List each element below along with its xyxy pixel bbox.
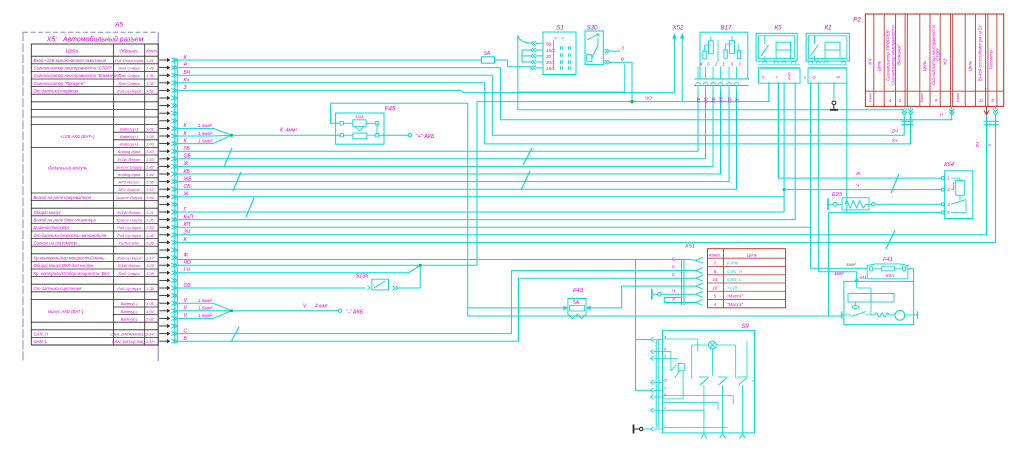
- wire S1 pin50 drop: [518, 35, 531, 92]
- wire V 4mm: [232, 310, 339, 312]
- svg-text:минус АКБ (ВАТ-): минус АКБ (ВАТ-): [48, 309, 84, 314]
- junction dot S30/bus: [630, 100, 633, 103]
- svg-text:4мм²: 4мм²: [846, 262, 856, 267]
- svg-text:Ж: Ж: [855, 171, 861, 177]
- svg-text:КчП: КчП: [787, 72, 792, 79]
- arrow P2 pin11 red: [986, 106, 988, 115]
- wire row21 G: [177, 211, 784, 213]
- merge chevron V: [213, 303, 232, 318]
- arrow P2 pin9: [949, 109, 954, 113]
- svg-text:1.5мм²: 1.5мм²: [198, 131, 213, 136]
- svg-text:Pull-Up Input: Pull-Up Input: [117, 233, 141, 238]
- svg-text:Сигнализатор неисправности “Вн: Сигнализатор неисправности “Внимание”: [34, 73, 121, 78]
- wire row34 V: [177, 310, 213, 312]
- svg-text:Pull-Up Input: Pull-Up Input: [117, 286, 141, 291]
- wire row24 ZCh: [177, 116, 986, 235]
- svg-text:+12В: +12В: [727, 285, 737, 290]
- wire S30 out 0: [610, 62, 632, 101]
- svg-text:Кр- контроль/Отбор мощности- В: Кр- контроль/Отбор мощности- Вкл: [34, 271, 110, 276]
- bundle slash D: [523, 148, 532, 165]
- svg-text:Р2: Р2: [853, 17, 861, 24]
- pin triangle M1: [855, 278, 859, 281]
- bundle slash B: [233, 172, 241, 191]
- svg-text:ЗБ: ЗБ: [734, 97, 739, 103]
- wire row38 CAN_L: [177, 278, 696, 341]
- svg-text:15/1: 15/1: [546, 66, 555, 71]
- svg-text:“-” АКБ: “-” АКБ: [346, 310, 364, 316]
- svg-text:Source Output: Source Output: [116, 218, 143, 223]
- svg-text:4 мм²: 4 мм²: [315, 304, 328, 310]
- wire row25 K: [177, 116, 995, 243]
- svg-text:Е23: Е23: [832, 192, 843, 198]
- svg-text:1.10: 1.10: [146, 225, 155, 230]
- wire row23 KP: [177, 226, 810, 228]
- svg-text:2: 2: [946, 187, 950, 192]
- svg-text:Цепь: Цепь: [747, 253, 757, 258]
- wire row29 GCh: [177, 272, 409, 274]
- wire K1 pin1 down: [811, 82, 868, 268]
- bus riser to K5: [682, 82, 769, 101]
- svg-text:+12В АКБ (ВАТ+): +12В АКБ (ВАТ+): [60, 134, 95, 139]
- svg-text:CAN_DATA(LINK)-: CAN_DATA(LINK)-: [112, 339, 147, 344]
- svg-text:Обознач.: Обознач.: [119, 48, 138, 53]
- svg-text:Sink Output: Sink Output: [118, 73, 140, 78]
- X51 fork contacts: [696, 257, 703, 263]
- wire X51 massa2: [664, 298, 696, 303]
- wire K64 pin2 Ch: [784, 189, 941, 191]
- svg-text:Сигнализатор неисправности “СТ: Сигнализатор неисправности “СТОП”: [34, 66, 113, 71]
- svg-text:1.03: 1.03: [146, 142, 155, 147]
- wire S9 ground feed: [643, 428, 651, 430]
- svg-text:К64: К64: [944, 162, 954, 168]
- svg-text:ЧО: ЧО: [645, 96, 652, 102]
- fuse 5A on row1: [482, 57, 495, 63]
- svg-text:Analog Input: Analog Input: [117, 172, 142, 177]
- svg-text:“Масса”: “Масса”: [727, 294, 743, 299]
- svg-text:S136: S136: [355, 274, 369, 280]
- wire row19 Zh: [177, 196, 784, 198]
- svg-text:ОБ: ОБ: [703, 97, 708, 103]
- svg-text:Цепь: Цепь: [922, 60, 927, 71]
- junction dot K merge: [230, 134, 233, 137]
- svg-text:Pull-Down Input: Pull-Down Input: [115, 58, 144, 63]
- svg-text:1.39: 1.39: [146, 286, 155, 291]
- svg-text:ЖБ: ЖБ: [718, 96, 723, 104]
- wire row2 P: [177, 68, 951, 120]
- svg-text:EGW Return: EGW Return: [118, 210, 142, 215]
- wire S1 50 down long: [518, 92, 904, 110]
- connector pin arrows: [159, 59, 168, 61]
- svg-text:в: в: [804, 75, 806, 80]
- wire row3 BCh: [177, 75, 904, 135]
- svg-text:15/2: 15/2: [546, 48, 555, 53]
- svg-text:ЖЧ: ЖЧ: [868, 59, 873, 67]
- wire F43 feed: [468, 307, 564, 309]
- svg-text:1.43: 1.43: [146, 149, 155, 154]
- wire P2 pin5 down: [995, 116, 997, 243]
- svg-text:1.5мм²: 1.5мм²: [198, 298, 213, 303]
- dashed enclosure around X5 table: [23, 31, 158, 33]
- svg-text:1.5мм²: 1.5мм²: [198, 306, 213, 311]
- wire E23 to K64 pin3: [875, 203, 941, 205]
- svg-text:EGW Return: EGW Return: [118, 157, 142, 162]
- wire K1 pin2 down: [818, 82, 856, 281]
- svg-text:Sink Output: Sink Output: [118, 81, 140, 86]
- svg-text:СБ: СБ: [727, 97, 732, 103]
- wire row27 F: [177, 259, 696, 262]
- svg-text:К5: К5: [774, 25, 782, 32]
- svg-text:30: 30: [546, 54, 552, 59]
- svg-text:1.36: 1.36: [146, 73, 155, 78]
- svg-text:1.56: 1.56: [146, 180, 155, 185]
- connector bus line 1: [174, 58, 176, 343]
- svg-text:1.09: 1.09: [146, 240, 155, 245]
- svg-text:0: 0: [672, 272, 675, 277]
- svg-text:ЗЧ: ЗЧ: [975, 142, 980, 148]
- svg-text:“Внимание”: “Внимание”: [897, 43, 902, 66]
- svg-text:Общий минус: Общий минус: [34, 210, 62, 215]
- svg-text:F45: F45: [385, 106, 396, 113]
- svg-text:БЧ: БЧ: [892, 129, 899, 134]
- svg-text:Цепь: Цепь: [968, 60, 973, 71]
- wire row1 K to fuse S4: [177, 59, 481, 61]
- svg-text:11: 11: [979, 98, 984, 103]
- svg-text:Конт.: Конт.: [709, 253, 721, 258]
- wire row16 pedal: [177, 91, 720, 175]
- wire row15 pedal: [177, 91, 713, 167]
- terminal circle AKB minus: [338, 309, 341, 312]
- junction dot row19: [783, 188, 786, 191]
- wire F45 plus out: [379, 134, 409, 136]
- wire P2 pin11 down: [986, 116, 988, 235]
- svg-text:От датчика скорости автомобиля: От датчика скорости автомобиля: [34, 233, 107, 238]
- wire row35 V: [177, 317, 213, 319]
- wire F43 out to X51: [591, 286, 696, 308]
- ground symbol K1: [832, 101, 836, 105]
- svg-text:5А: 5А: [484, 51, 491, 57]
- svg-text:F41: F41: [883, 257, 893, 263]
- wire row37 CAN_H: [177, 271, 696, 334]
- wire row10 K: [177, 127, 213, 129]
- svg-text:От датчика тормоза: От датчика тормоза: [34, 88, 79, 93]
- svg-text:1.01: 1.01: [146, 126, 154, 131]
- svg-text:Battery(-): Battery(-): [121, 316, 139, 321]
- svg-text:Source Output: Source Output: [116, 195, 143, 200]
- svg-text:Ф: Ф: [184, 252, 188, 258]
- wire row17 pedal: [177, 91, 729, 182]
- bundle slash A: [224, 148, 232, 167]
- bundle slash P2: [886, 230, 895, 249]
- svg-text:Pull-Up Input: Pull-Up Input: [117, 88, 141, 93]
- wire row33 V: [177, 302, 213, 304]
- svg-text:К: К: [987, 143, 992, 146]
- svg-text:2: 2: [714, 62, 718, 67]
- bundle slash CAN: [231, 327, 239, 342]
- svg-text:CAN_H: CAN_H: [727, 269, 743, 274]
- svg-text:К 4мм²: К 4мм²: [280, 128, 297, 134]
- relay sockets strip: [763, 61, 767, 63]
- wire X51 massa1: [661, 293, 696, 295]
- svg-text:F43: F43: [573, 288, 584, 294]
- wire S30 out Z stub: [610, 50, 620, 52]
- svg-text:1.42: 1.42: [146, 164, 155, 169]
- svg-text:K-line: K-line: [727, 261, 739, 266]
- svg-text:1.15: 1.15: [146, 339, 155, 344]
- bundle slash E: [521, 171, 530, 190]
- heater motor M1 block: [844, 281, 914, 324]
- merge chevron K: [213, 128, 232, 143]
- wire S1 to S30 lower: [518, 64, 625, 92]
- wire F drop to S9: [636, 260, 651, 391]
- wire row18 pedal: [177, 91, 736, 190]
- svg-text:1.06: 1.06: [146, 301, 155, 306]
- arrow P2 pin1: [908, 109, 913, 113]
- wire row13 pedal: [177, 91, 698, 152]
- svg-text:1.20: 1.20: [146, 218, 155, 223]
- svg-text:EGW Return: EGW Return: [118, 263, 142, 268]
- svg-text:Battery(-): Battery(-): [121, 309, 139, 314]
- svg-text:CAN_L: CAN_L: [727, 277, 742, 282]
- svg-text:Х52: Х52: [671, 25, 684, 32]
- svg-text:1.57: 1.57: [146, 187, 155, 192]
- arrow P2 pin5: [993, 109, 998, 113]
- svg-text:“Масса”: “Масса”: [727, 302, 743, 307]
- svg-text:1.5мм²: 1.5мм²: [198, 313, 213, 318]
- svg-text:1.46: 1.46: [146, 195, 155, 200]
- junction dot V merge: [230, 309, 233, 312]
- bundle slash K64: [891, 174, 899, 193]
- svg-text:Кр-контроль/огр.мощности/Умень: Кр-контроль/огр.мощности/Умень: [34, 256, 106, 261]
- svg-text:1.5мм²: 1.5мм²: [198, 123, 213, 128]
- svg-text:“+” АКБ: “+” АКБ: [416, 134, 435, 140]
- wire bus drop to ChO: [476, 102, 478, 266]
- svg-text:Battery(-): Battery(-): [121, 301, 139, 306]
- svg-text:Х51: Х51: [684, 244, 695, 250]
- svg-text:CAN_H: CAN_H: [34, 332, 49, 337]
- ground symbol X51: [651, 289, 653, 300]
- svg-text:S9: S9: [741, 324, 749, 330]
- wire K1 pin4 down: [833, 82, 835, 99]
- wire S1 pin30 stub: [522, 55, 531, 57]
- svg-text:Педальный модуль: Педальный модуль: [48, 165, 88, 170]
- svg-text:Общий минус:ВКЛ для кнопок: Общий минус:ВКЛ для кнопок: [34, 263, 95, 268]
- svg-text:1.52: 1.52: [146, 88, 155, 93]
- svg-text:КБ: КБ: [711, 97, 716, 102]
- arrow P2 pin4: [902, 109, 907, 113]
- svg-text:Tachometer: Tachometer: [118, 240, 140, 245]
- svg-text:1: 1: [664, 406, 666, 410]
- connector bars left pair: [901, 120, 913, 122]
- svg-text:4мм²: 4мм²: [834, 271, 844, 276]
- svg-text:Battery(+): Battery(+): [120, 134, 139, 139]
- svg-text:ЖЗ: ЖЗ: [943, 58, 948, 66]
- wire K5 pin4 down: [794, 82, 796, 219]
- ground symbol S9: [633, 425, 635, 434]
- svg-text:Выход на реле блок стартера: Выход на реле блок стартера: [34, 218, 97, 223]
- svg-text:14: 14: [713, 277, 718, 282]
- svg-text:1.17: 1.17: [146, 256, 155, 261]
- svg-text:0: 0: [621, 57, 624, 63]
- svg-text:1.21: 1.21: [146, 210, 154, 215]
- connector contact chevrons: [171, 58, 175, 62]
- svg-text:Sink Output: Sink Output: [118, 66, 140, 71]
- svg-text:М1: М1: [860, 275, 867, 281]
- svg-text:1.41: 1.41: [146, 58, 154, 63]
- svg-text:CAN_DATA(LINK)-O: CAN_DATA(LINK)-O: [110, 332, 148, 337]
- svg-text:Диагностика Вкл: Диагностика Вкл: [33, 225, 70, 230]
- wire row14 pedal: [177, 91, 705, 159]
- svg-text:Сигнал на тахометр: Сигнал на тахометр: [34, 240, 78, 245]
- wire row12 K: [177, 143, 213, 145]
- svg-text:1.53: 1.53: [146, 157, 155, 162]
- svg-text:З: З: [621, 46, 624, 52]
- ignition bus wire: [477, 101, 682, 103]
- svg-text:Pull-Up Input: Pull-Up Input: [117, 225, 141, 230]
- svg-text:Pull-Up Input: Pull-Up Input: [117, 256, 141, 261]
- svg-text:Вход +12В выключателя зажигани: Вход +12В выключателя зажигания: [34, 58, 107, 63]
- svg-text:б: б: [672, 265, 675, 270]
- wire K64 pin5 riser: [829, 212, 942, 316]
- wire K 4mm to F45: [232, 134, 341, 136]
- svg-text:50: 50: [546, 42, 552, 47]
- svg-text:Цепь: Цепь: [877, 60, 882, 71]
- wire row11 K: [177, 135, 213, 137]
- svg-text:60А: 60А: [886, 273, 894, 278]
- svg-text:Тахометр: Тахометр: [989, 49, 994, 69]
- wire S136 up to row28: [398, 265, 420, 288]
- svg-text:Конт: Конт: [955, 92, 960, 103]
- wire row4 Kch: [177, 83, 910, 144]
- svg-text:Конт: Конт: [919, 92, 924, 103]
- svg-text:1.35: 1.35: [146, 81, 155, 86]
- svg-text:125А: 125А: [355, 115, 364, 119]
- wire F41 out: [908, 269, 914, 282]
- svg-text:1.5мм²: 1.5мм²: [198, 138, 213, 143]
- svg-text:S1: S1: [556, 25, 564, 32]
- svg-text:Выход на реле нагревателя: Выход на реле нагревателя: [34, 195, 92, 200]
- svg-text:1.44: 1.44: [146, 172, 155, 177]
- wire K1 pin3 down: [846, 82, 848, 212]
- wire row31 OZ to S136: [177, 287, 365, 289]
- svg-text:AP2 Source: AP2 Source: [117, 187, 140, 192]
- bundle slash C: [246, 198, 254, 217]
- wire F45 minus loop: [331, 103, 468, 308]
- svg-text:“СТОП”: “СТОП”: [936, 47, 941, 62]
- wire row1 K fuse to S1 pin: [495, 60, 531, 67]
- wire K64 pin1 Zh: [778, 82, 941, 178]
- svg-text:Сигнализатор неисправности: Сигнализатор неисправности: [891, 24, 896, 84]
- junction dot S136: [419, 264, 422, 267]
- svg-text:Конт: Конт: [146, 48, 157, 53]
- svg-text:От датчика сцепления: От датчика сцепления: [34, 286, 83, 291]
- wire K5 pin2 down: [777, 82, 779, 178]
- svg-text:гр ~ гр: гр ~ гр: [554, 36, 564, 40]
- svg-text:1.28: 1.28: [146, 271, 155, 276]
- relay wire label box K5: [759, 69, 801, 83]
- wire S9 pin4 stub: [636, 339, 651, 341]
- svg-text:30/1: 30/1: [546, 60, 555, 65]
- wire row22 KchP: [177, 219, 795, 221]
- wire minus distribution: [468, 308, 843, 316]
- inline connector pair X51: [681, 260, 683, 305]
- connector bus line 2: [176, 58, 178, 343]
- svg-text:Sink Output: Sink Output: [118, 271, 140, 276]
- svg-text:Battery(+): Battery(+): [120, 126, 139, 131]
- svg-text:1.28: 1.28: [146, 233, 155, 238]
- terminal circle AKB plus: [408, 134, 411, 137]
- svg-text:К1: К1: [824, 25, 831, 32]
- svg-text:16: 16: [713, 285, 718, 290]
- svg-text:Выход от спидометра на БУ: Выход от спидометра на БУ: [978, 25, 983, 82]
- svg-text:1.04: 1.04: [146, 309, 155, 314]
- relay wire label box K1: [808, 69, 847, 83]
- wire K5 pin1 down: [768, 82, 770, 101]
- svg-text:В17: В17: [720, 25, 732, 32]
- svg-text:AP2 Return: AP2 Return: [118, 180, 141, 185]
- svg-text:1.02: 1.02: [146, 316, 155, 321]
- svg-text:Battery(+): Battery(+): [120, 142, 139, 147]
- svg-text:S30: S30: [586, 25, 598, 32]
- svg-text:Конт: Конт: [868, 92, 873, 103]
- svg-text:Цепь: Цепь: [66, 48, 79, 54]
- svg-text:1.29: 1.29: [146, 263, 155, 268]
- svg-text:Сигнализатор “Прогрев”: Сигнализатор “Прогрев”: [34, 81, 85, 86]
- svg-text:1.14: 1.14: [146, 332, 155, 337]
- svg-text:А5: А5: [114, 22, 123, 29]
- wire S1 pins bus: [522, 50, 531, 62]
- svg-text:Sensor Supply: Sensor Supply: [116, 164, 143, 169]
- wire row5 Z: [177, 90, 674, 92]
- table X5 grid: [31, 44, 158, 56]
- svg-text:Х5: Автомобильный разъем: Х5: Автомобильный разъем: [46, 36, 144, 44]
- wire K5 pin3 down: [783, 82, 785, 212]
- svg-text:CAN_L: CAN_L: [34, 339, 48, 344]
- svg-text:Analog Input: Analog Input: [117, 149, 142, 154]
- svg-text:Кч: Кч: [892, 138, 898, 143]
- wire row28 ChO: [177, 264, 477, 266]
- connector bars right pair: [984, 120, 999, 122]
- svg-text:1.49: 1.49: [146, 66, 155, 71]
- svg-text:ГБ: ГБ: [696, 97, 701, 102]
- svg-text:1.05: 1.05: [146, 134, 155, 139]
